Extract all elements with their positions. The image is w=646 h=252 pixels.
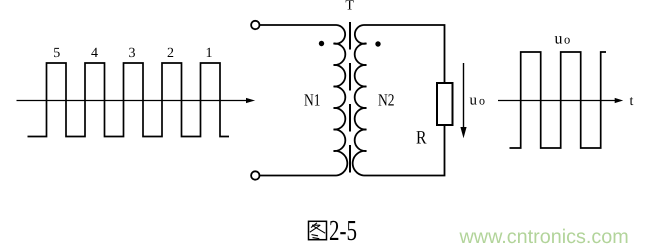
resistor R bbox=[437, 83, 453, 125]
wire secondary top bbox=[364, 25, 445, 83]
primary winding N1 bbox=[334, 25, 348, 176]
wire below resistor bbox=[364, 125, 445, 176]
svg-text:1: 1 bbox=[206, 46, 213, 61]
input axis bbox=[17, 100, 249, 102]
terminal bottom-left bbox=[251, 171, 259, 179]
polarity dot N2 bbox=[375, 41, 380, 46]
svg-text:www.cntronics.com: www.cntronics.com bbox=[459, 226, 629, 248]
svg-text:N2: N2 bbox=[378, 91, 395, 110]
svg-text:2: 2 bbox=[167, 46, 174, 61]
output axis arrowhead bbox=[615, 98, 624, 103]
wire bottom primary bbox=[260, 175, 337, 177]
caption glyph 图 bbox=[309, 221, 327, 239]
secondary winding N2 bbox=[353, 25, 367, 176]
output waveform bbox=[510, 52, 607, 148]
svg-text:T: T bbox=[345, 0, 354, 14]
output axis bbox=[498, 100, 616, 102]
input axis arrowhead bbox=[246, 98, 255, 103]
svg-text:3: 3 bbox=[129, 46, 136, 61]
svg-text:5: 5 bbox=[53, 46, 60, 61]
svg-text:4: 4 bbox=[91, 46, 98, 61]
svg-text:N1: N1 bbox=[304, 91, 321, 110]
svg-text:o: o bbox=[479, 94, 485, 108]
polarity dot N1 bbox=[319, 41, 324, 46]
terminal top-left bbox=[251, 21, 259, 29]
svg-text:t: t bbox=[630, 94, 634, 109]
svg-text:u: u bbox=[470, 93, 478, 109]
wire top primary bbox=[260, 24, 337, 26]
svg-text:R: R bbox=[416, 128, 427, 149]
svg-text:o: o bbox=[564, 33, 570, 47]
svg-text:u: u bbox=[555, 31, 563, 48]
transformer core bbox=[349, 22, 351, 173]
uo arrow bbox=[463, 63, 465, 128]
input pulse waveform bbox=[28, 63, 230, 137]
svg-text:2-5: 2-5 bbox=[329, 215, 357, 247]
